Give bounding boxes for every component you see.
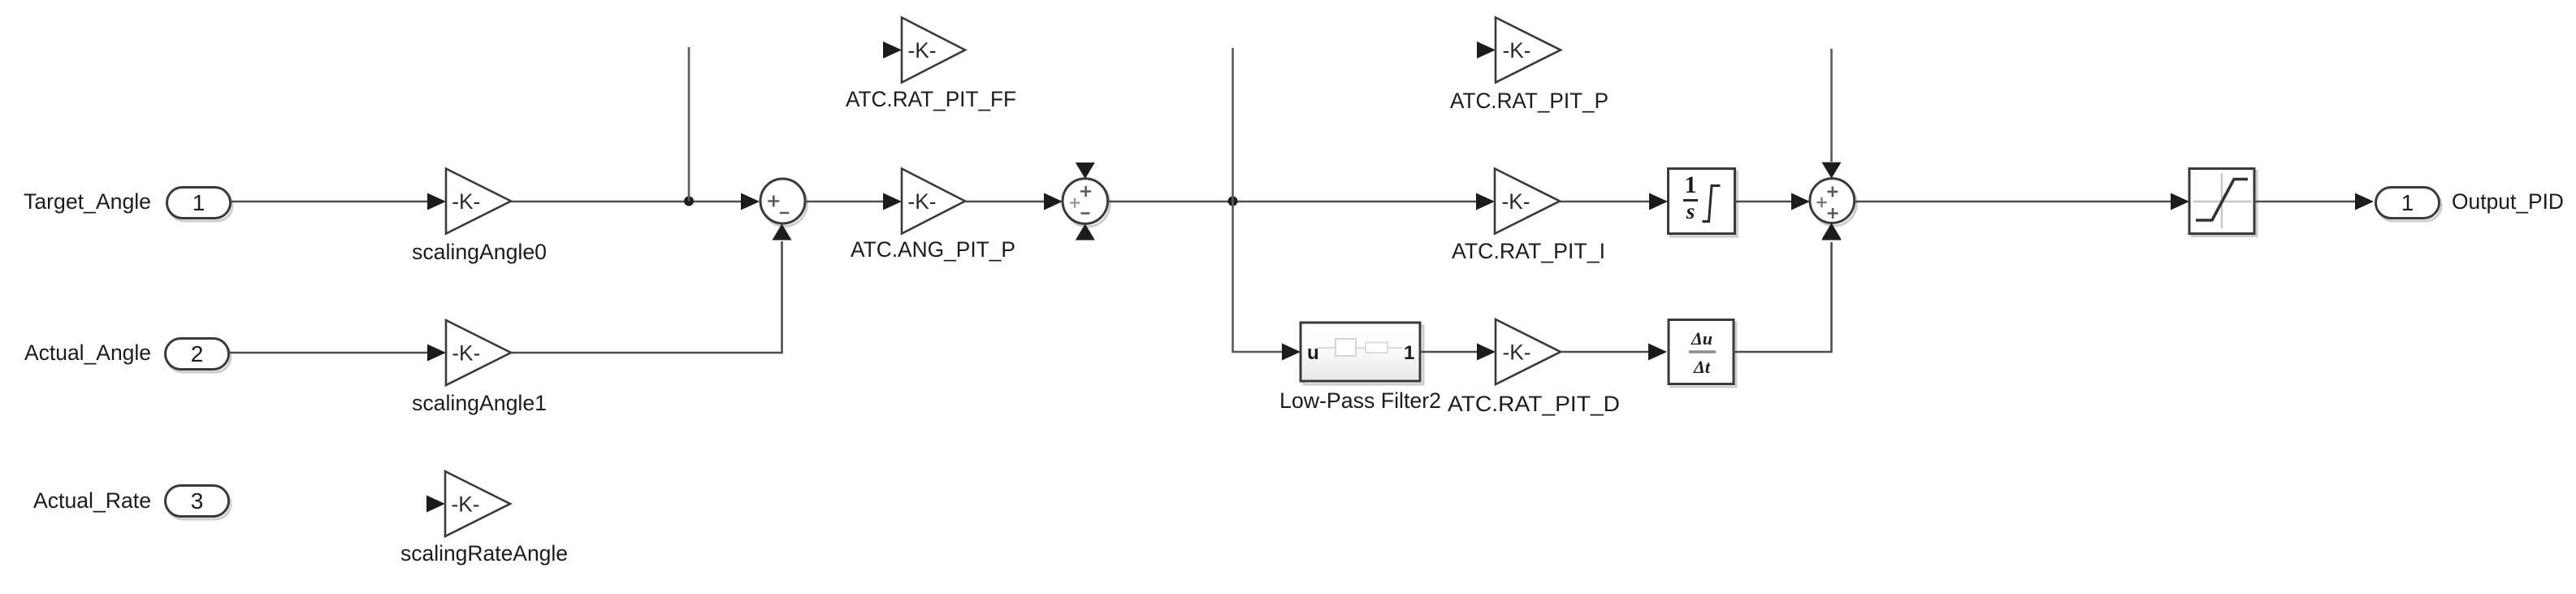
label Actual_Angle — [24, 340, 151, 365]
svg-text:Low-Pass Filter2: Low-Pass Filter2 — [1279, 388, 1441, 413]
label Output_PID — [2452, 189, 2564, 214]
svg-text:Actual_Rate: Actual_Rate — [33, 488, 151, 513]
svg-text:Actual_Angle: Actual_Angle — [24, 340, 151, 365]
node J1 — [684, 197, 694, 206]
label scalingRateAngle — [400, 541, 568, 566]
wire Sum2 to ATC.RAT_PIT_I — [1108, 193, 1495, 210]
svg-text:Δu: Δu — [1691, 328, 1712, 349]
node J2 — [1228, 197, 1238, 206]
label scalingAngle1 — [412, 391, 547, 415]
sum Sum3 — [1810, 163, 1857, 240]
svg-text:Δt: Δt — [1693, 357, 1711, 377]
label Low-Pass Filter2 — [1279, 388, 1441, 413]
svg-text:-K-: -K- — [452, 189, 480, 214]
svg-text:ATC.RAT_PIT_D: ATC.RAT_PIT_D — [1448, 392, 1620, 416]
gain ATC.RAT_PIT_D — [1496, 319, 1561, 384]
inport 2 Actual_Angle — [166, 339, 232, 373]
svg-text:ATC.RAT_PIT_P: ATC.RAT_PIT_P — [1450, 89, 1608, 113]
wire Sum1 to ATC.ANG_PIT_P — [805, 193, 902, 210]
label Target_Angle — [24, 189, 151, 214]
wire inport1 to scalingAngle0 — [231, 193, 446, 210]
wire RAT_PIT_I to integrator — [1560, 193, 1668, 210]
svg-text:3: 3 — [191, 488, 204, 514]
svg-text:scalingRateAngle: scalingRateAngle — [400, 541, 568, 566]
svg-text:scalingAngle0: scalingAngle0 — [412, 240, 547, 264]
wire J2 vertical to Low-Pass Filter2 — [1233, 48, 1301, 361]
wire Sum3 to saturation — [1855, 193, 2189, 210]
wire inport2 to scalingAngle1 — [229, 345, 446, 362]
svg-text:ATC.ANG_PIT_P: ATC.ANG_PIT_P — [851, 237, 1015, 262]
gain ATC.RAT_PIT_P — [1477, 18, 1561, 83]
svg-text:1: 1 — [1404, 342, 1414, 364]
label ATC.RAT_PIT_D — [1448, 392, 1620, 416]
saturation block — [2189, 169, 2257, 236]
outport 1 Output_PID — [2376, 188, 2442, 222]
svg-text:Output_PID: Output_PID — [2452, 189, 2564, 214]
gain scalingAngle1 — [446, 320, 511, 385]
svg-text:scalingAngle1: scalingAngle1 — [412, 391, 547, 415]
svg-text:2: 2 — [191, 341, 204, 366]
wire RAT_PIT_D to derivative — [1561, 344, 1667, 361]
svg-text:1: 1 — [2401, 190, 2414, 215]
svg-text:-K-: -K- — [1503, 38, 1531, 63]
inport 3 Actual_Rate — [166, 486, 232, 520]
sum Sum1 — [760, 179, 807, 227]
wire filter to ATC.RAT_PIT_D — [1420, 344, 1496, 361]
wire derivative to Sum3 bottom — [1734, 224, 1842, 353]
svg-text:-K-: -K- — [452, 492, 480, 517]
wire saturation to outport — [2254, 193, 2374, 210]
wire dangling vertical to Sum3 top — [1830, 49, 1833, 162]
derivative block du/dt — [1669, 320, 1736, 388]
svg-text:-K-: -K- — [908, 189, 937, 214]
label scalingAngle0 — [412, 240, 547, 264]
label ATC.RAT_PIT_I — [1452, 239, 1605, 263]
svg-text:-K-: -K- — [1503, 340, 1531, 365]
inport 1 Target_Angle — [167, 188, 233, 222]
subsystem Low-Pass Filter2 — [1301, 323, 1423, 384]
gain ATC.ANG_PIT_P — [902, 169, 965, 234]
label ATC.ANG_PIT_P — [851, 237, 1015, 262]
label ATC.RAT_PIT_P — [1450, 89, 1608, 113]
label ATC.RAT_PIT_FF — [846, 87, 1016, 111]
gain scalingRateAngle — [426, 471, 510, 536]
svg-text:ATC.RAT_PIT_FF: ATC.RAT_PIT_FF — [846, 87, 1016, 111]
svg-text:-K-: -K- — [452, 341, 480, 366]
integrator U1 1/s — [1669, 169, 1738, 237]
label Actual_Rate — [33, 488, 151, 513]
svg-text:u: u — [1307, 342, 1319, 364]
wire scalingAngle0 to Sum1 — [511, 193, 760, 210]
gain ATC.RAT_PIT_FF — [883, 18, 965, 83]
wire ANG_PIT_P to Sum2 — [965, 193, 1063, 210]
wire scalingAngle1 to Sum1 bottom — [511, 224, 792, 353]
svg-text:1: 1 — [193, 190, 206, 215]
wire integrator to Sum3 — [1734, 193, 1810, 210]
svg-text:1: 1 — [1685, 171, 1697, 198]
svg-text:Target_Angle: Target_Angle — [24, 189, 151, 214]
svg-text:ATC.RAT_PIT_I: ATC.RAT_PIT_I — [1452, 239, 1605, 263]
svg-text:-K-: -K- — [1502, 189, 1530, 214]
sum Sum2 — [1063, 163, 1110, 241]
svg-text:-K-: -K- — [908, 38, 937, 63]
gain scalingAngle0 — [446, 169, 511, 234]
gain ATC.RAT_PIT_I — [1495, 169, 1560, 234]
svg-text:s: s — [1686, 199, 1695, 223]
wire dangling vertical at J1 — [688, 47, 691, 202]
